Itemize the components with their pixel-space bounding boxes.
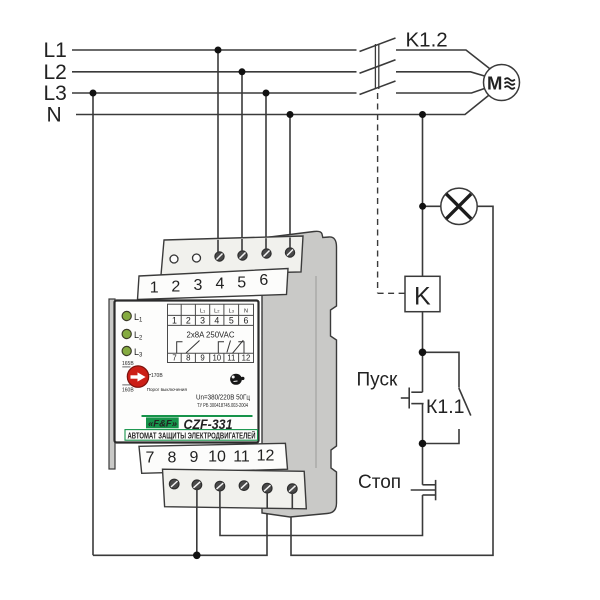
svg-text:9: 9 — [190, 449, 199, 466]
svg-text:165В: 165В — [122, 361, 134, 367]
svg-text:2: 2 — [186, 316, 191, 326]
svg-text:3: 3 — [193, 277, 202, 294]
svg-text:3: 3 — [200, 316, 205, 326]
svg-text:Пуск: Пуск — [357, 370, 398, 391]
svg-text:N: N — [244, 309, 248, 315]
svg-text:5: 5 — [229, 316, 234, 326]
svg-text:9: 9 — [200, 354, 204, 363]
svg-text:8: 8 — [168, 450, 177, 467]
svg-text:K1.2: K1.2 — [406, 29, 448, 52]
svg-text:Стоп: Стоп — [358, 472, 401, 493]
svg-text:6: 6 — [259, 272, 268, 289]
svg-text:К1.1: К1.1 — [426, 396, 464, 418]
svg-text:4: 4 — [216, 276, 225, 293]
svg-text:11: 11 — [227, 354, 235, 363]
svg-text:АВТОМАТ ЗАЩИТЫ ЭЛЕКТРОДВИГАТЕЛ: АВТОМАТ ЗАЩИТЫ ЭЛЕКТРОДВИГАТЕЛЕЙ — [128, 432, 256, 441]
svg-text:160В: 160В — [122, 388, 134, 394]
svg-text:L2: L2 — [44, 61, 67, 84]
svg-text:ТУ РБ 300418745.003-2004: ТУ РБ 300418745.003-2004 — [197, 403, 248, 409]
svg-text:N: N — [47, 104, 62, 127]
svg-text:10: 10 — [208, 449, 226, 466]
svg-text:10: 10 — [212, 354, 221, 363]
svg-text:7: 7 — [146, 450, 155, 467]
svg-text:K: K — [414, 283, 431, 311]
svg-text:L3: L3 — [44, 82, 67, 105]
svg-text:Порог выключения: Порог выключения — [147, 387, 188, 392]
svg-text:1: 1 — [172, 316, 177, 326]
svg-text:2: 2 — [171, 278, 180, 295]
svg-text:4: 4 — [214, 316, 219, 326]
svg-text:12: 12 — [242, 354, 251, 363]
svg-text:«F&F»: «F&F» — [148, 418, 177, 429]
svg-text:12: 12 — [257, 448, 275, 465]
svg-text:M: M — [487, 73, 502, 94]
svg-text:8: 8 — [186, 354, 190, 363]
svg-text:7: 7 — [172, 354, 176, 363]
svg-text:Un=380/220В 50Гц: Un=380/220В 50Гц — [196, 393, 251, 402]
svg-text:L1: L1 — [44, 39, 67, 62]
svg-text:1: 1 — [150, 280, 159, 297]
svg-text:11: 11 — [233, 449, 250, 466]
svg-text:6: 6 — [244, 316, 249, 326]
svg-text:2x8A 250VAC: 2x8A 250VAC — [187, 331, 235, 340]
svg-text:170В: 170В — [151, 373, 163, 379]
svg-text:5: 5 — [237, 274, 246, 291]
